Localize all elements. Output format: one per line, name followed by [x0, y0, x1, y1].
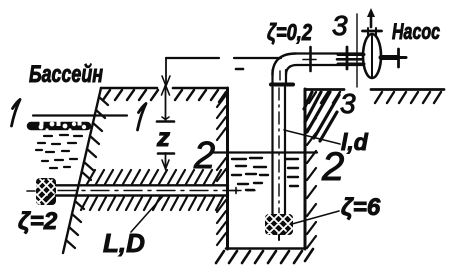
pipe L,D centerline: [58, 190, 255, 192]
svg-text:2: 2: [193, 135, 215, 177]
pump body: [363, 34, 381, 78]
svg-text:3: 3: [332, 10, 348, 41]
strainer centerline stub: [27, 190, 35, 192]
basin bank slope: [63, 88, 101, 253]
ground hatching right: [309, 92, 441, 103]
hatching left of well wall: [217, 95, 226, 245]
svg-text:L,D: L,D: [103, 228, 145, 258]
pipe axis reference line top: [166, 57, 281, 59]
label 1 left: [12, 100, 21, 127]
well right wall: [304, 89, 307, 249]
suction strainer box ζ=2 at basin: [36, 178, 56, 205]
label l,d with leader: [284, 130, 340, 144]
dimension arrow ground to level 1: [157, 85, 174, 122]
foot valve strainer ζ=6: [265, 214, 293, 240]
dimension tick at level 2 with down arrow: [158, 153, 174, 169]
svg-text:z: z: [156, 122, 170, 152]
hatching below pipe: [81, 197, 223, 210]
section line 3-3: [356, 14, 358, 87]
basin water dashes: [36, 135, 82, 168]
well left wall: [226, 88, 229, 249]
vertical drop arrow to ground: [162, 58, 170, 86]
pump discharge arrow: [367, 8, 375, 27]
well bottom: [226, 247, 305, 250]
centerline continues into well: [230, 188, 238, 194]
pump suction flange: [346, 47, 349, 69]
svg-text:3: 3: [340, 88, 356, 119]
basin water surface dark band with ripples: [31, 121, 87, 132]
horizontal pipe to pump: [296, 54, 362, 66]
hatching above pipe: [87, 170, 221, 184]
right ground block heavy hatching: [304, 92, 339, 141]
pump shaft right: [381, 49, 406, 67]
bank slope hatching: [66, 97, 108, 248]
hatching below well bottom: [216, 249, 313, 263]
elbow ζ=0.2: [271, 54, 297, 85]
label 1 right: [138, 104, 147, 131]
ground surface right: [305, 88, 444, 91]
pipe flange near elbow: [309, 47, 312, 71]
suction pipe into pump: [338, 55, 364, 65]
pump discharge stub with flange: [363, 28, 382, 35]
pipe centerline dash: [303, 59, 316, 61]
ground surface line left block: [101, 87, 226, 90]
well water dashes: [232, 158, 298, 190]
small dash artifact: [236, 68, 243, 71]
svg-text:ζ=6: ζ=6: [341, 194, 381, 221]
hatching right of well wall: [307, 118, 316, 248]
vertical suction pipe l,d: [273, 87, 286, 214]
svg-text:Бассейн: Бассейн: [29, 61, 103, 88]
water level line 2-2: [212, 151, 317, 153]
label ζ=6 with leader: [292, 211, 339, 224]
ground hatching below left block top: [103, 90, 226, 102]
svg-text:l,d: l,d: [341, 129, 369, 155]
water level line 1-1 basin: [33, 114, 127, 116]
svg-text:Насос: Насос: [392, 19, 440, 44]
label L,D with leader: [131, 196, 163, 232]
svg-text:ζ=2: ζ=2: [18, 208, 58, 235]
svg-text:ζ=0,2: ζ=0,2: [267, 19, 312, 45]
pipe L,D horizontal: [56, 185, 228, 195]
vertical pipe centerline: [278, 88, 280, 220]
